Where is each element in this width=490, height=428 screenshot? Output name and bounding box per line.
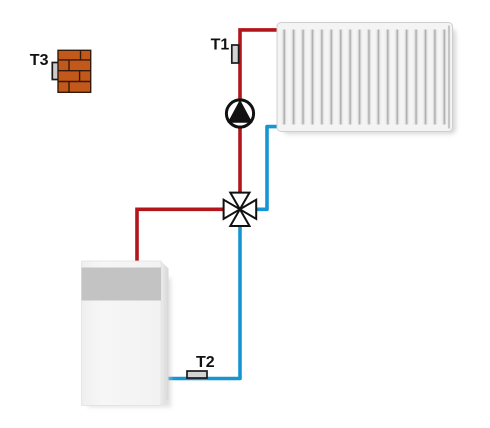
mixing valve	[224, 193, 257, 226]
label T3	[30, 52, 49, 69]
wire: blue return pipe valve to boiler	[167, 222, 240, 379]
radiator	[277, 23, 456, 135]
sensor T1	[232, 45, 239, 63]
wire: red supply pipe valve through pump to radiator	[240, 30, 278, 209]
brick wall	[58, 50, 91, 92]
boiler	[82, 261, 172, 407]
svg-text:T2: T2	[196, 354, 215, 371]
label T2	[196, 354, 215, 371]
sensor T3	[52, 63, 59, 80]
wire: red supply pipe boiler to valve	[137, 209, 224, 263]
wire: blue return pipe radiator to valve	[256, 127, 279, 210]
sensor T2	[187, 371, 207, 378]
pump P1	[226, 100, 253, 128]
svg-text:T1: T1	[211, 37, 230, 54]
svg-text:T3: T3	[30, 52, 49, 69]
label T1	[211, 37, 230, 54]
